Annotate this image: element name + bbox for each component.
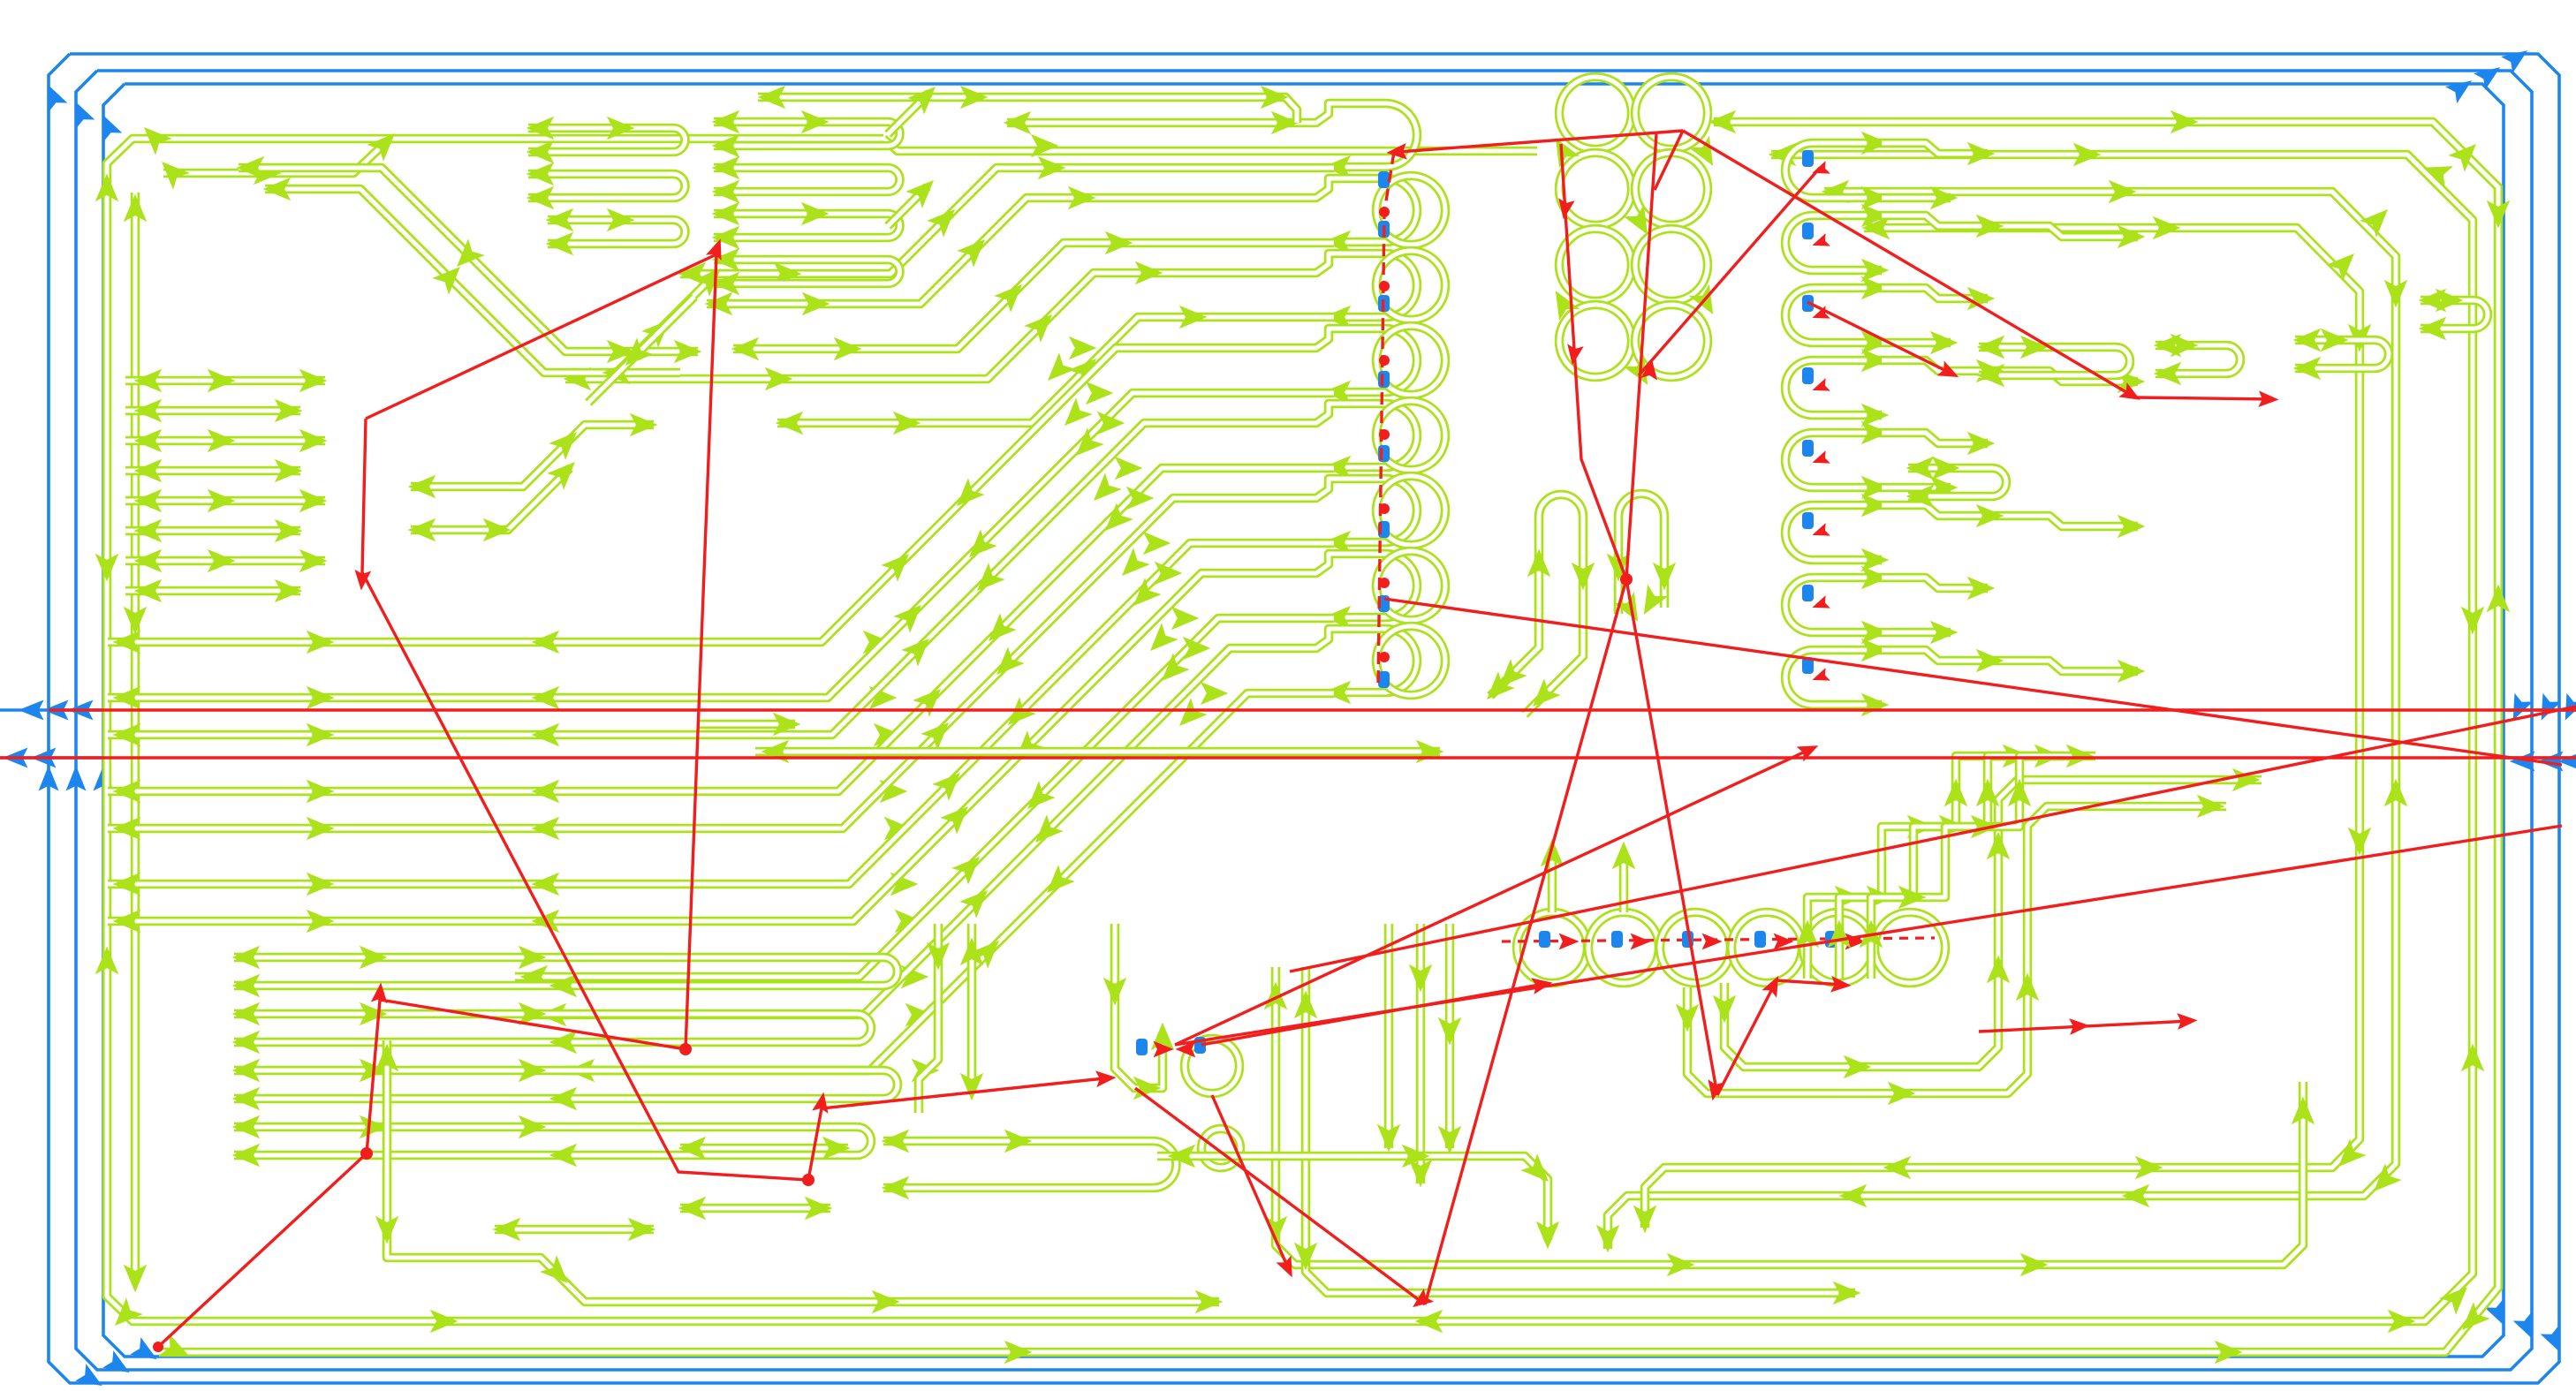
arrow — [959, 882, 996, 919]
arrow — [549, 1144, 578, 1168]
arrow — [360, 1115, 388, 1139]
arrow — [2448, 136, 2484, 172]
blue arrow — [2541, 1326, 2570, 1357]
pad loop L0 — [1336, 103, 1417, 167]
pad loop R4 — [1785, 433, 1882, 488]
wire rfeed 5 — [1882, 505, 2138, 526]
arrow — [2454, 1302, 2490, 1338]
arrow — [905, 1003, 934, 1027]
red arrow — [1797, 738, 1822, 762]
arrow — [628, 1218, 656, 1242]
arrow — [1976, 215, 2004, 238]
arrow — [2118, 660, 2146, 684]
arrow — [532, 723, 560, 747]
arrow — [2439, 1279, 2475, 1315]
red arrow — [1810, 595, 1830, 614]
wire feed pad loop L5 — [1297, 479, 1352, 498]
pad loop L5 — [1336, 479, 1417, 542]
ratsnest j2 — [1979, 1021, 2191, 1032]
arrow — [1409, 964, 1433, 993]
arrow — [2348, 828, 2372, 856]
arrow — [1653, 563, 1677, 591]
arrow — [1861, 349, 1890, 373]
blue arrow — [43, 700, 69, 721]
blue marker — [1378, 221, 1390, 238]
arrow — [254, 162, 282, 185]
wire v1641 — [1445, 924, 1455, 1148]
arrow — [134, 489, 163, 513]
pad ring pad loop L3 — [1376, 326, 1445, 395]
wire feed pad loop L0 — [1297, 103, 1352, 123]
ratsnest bus2 — [0, 756, 2576, 759]
wire fan row y309 — [565, 273, 1297, 379]
arrow — [773, 713, 801, 737]
arrow — [765, 367, 793, 391]
arrow — [232, 946, 261, 970]
net bus N2 tail — [883, 139, 1537, 151]
arrow — [2419, 317, 2447, 341]
arrow — [834, 337, 862, 361]
wire v1572 — [1384, 924, 1394, 1148]
arrow — [1027, 814, 1064, 850]
arrow — [1040, 352, 1076, 389]
net bus N3 — [1608, 192, 2396, 1249]
arrow — [2388, 1310, 2416, 1334]
ratsnest k — [1626, 134, 1656, 579]
arrow — [1930, 476, 1959, 500]
arrow — [360, 1002, 388, 1026]
wire tail U2c — [888, 186, 928, 226]
pad loop R7 — [1785, 650, 1882, 705]
wire feed pad loop L7 — [1297, 629, 1352, 648]
arrow — [1713, 995, 1737, 1024]
arrow — [1294, 1243, 1318, 1271]
wire row A7 — [125, 586, 300, 596]
arrow — [678, 1197, 707, 1221]
arrow — [1143, 532, 1171, 556]
arrow — [532, 686, 560, 710]
wire fork 2 — [411, 468, 570, 530]
wire corner diag 1 — [239, 168, 698, 352]
red arrow — [1810, 450, 1830, 469]
arrow — [2020, 1253, 2049, 1277]
arrow — [1142, 623, 1178, 659]
arrow — [2109, 180, 2137, 204]
ratsnest q — [1384, 599, 2562, 765]
arrow — [134, 429, 163, 453]
arrow — [880, 780, 908, 804]
arrow — [1971, 815, 1999, 839]
pad loop R5 — [1785, 505, 1882, 560]
arrow — [307, 873, 335, 896]
arrow — [232, 1031, 261, 1055]
via ring grid r1c0 — [1559, 153, 1632, 225]
wire loop G2 — [234, 1070, 898, 1099]
arrow — [712, 134, 740, 158]
arrow — [299, 549, 328, 573]
wire rret 2 — [1882, 338, 1951, 348]
via ring grid r1c1 — [1635, 153, 1708, 225]
via ring grid r2c0 — [1559, 229, 1632, 301]
blue marker — [1802, 367, 1814, 384]
arrow — [1415, 1310, 1443, 1334]
arrow — [1545, 284, 1580, 321]
arrow — [1708, 110, 1737, 134]
red arrow — [1810, 306, 1830, 324]
arrow — [1844, 1055, 1872, 1079]
wire rfeed 4 — [1882, 433, 1988, 443]
arrow — [960, 938, 984, 966]
arrow — [408, 518, 436, 542]
pad loop L2 — [1336, 253, 1417, 317]
arrow — [95, 174, 119, 202]
via ring grid r0c0 — [1559, 77, 1632, 149]
arrow — [1907, 815, 1936, 839]
arrow — [208, 369, 236, 393]
red arrow — [1810, 378, 1830, 397]
red arrow — [1631, 934, 1651, 950]
wire loop RM3 — [2295, 340, 2389, 368]
arrow — [1114, 548, 1150, 584]
arrow — [907, 79, 943, 115]
arrow — [1833, 1281, 1861, 1305]
blue marker — [1802, 150, 1814, 167]
arrow — [540, 1255, 576, 1291]
arrow — [546, 208, 574, 232]
arrow — [1976, 649, 2004, 673]
pad ring pad loop L5 — [1376, 476, 1445, 545]
arrow — [2016, 973, 2040, 1002]
arrow — [1987, 832, 2011, 860]
arrow — [1545, 132, 1580, 168]
via ring grid r2c1 — [1635, 229, 1708, 301]
arrow — [927, 201, 963, 238]
arrow — [1888, 1082, 1916, 1106]
blue marker — [1802, 657, 1814, 674]
via ring grid r3c1 — [1635, 305, 1708, 377]
arrow — [546, 232, 574, 256]
wire loop U2d — [714, 260, 900, 283]
arrow — [712, 156, 740, 180]
arrow — [774, 262, 802, 286]
arrow — [2487, 585, 2511, 613]
arrow — [113, 723, 141, 747]
arrow — [208, 549, 236, 573]
ratsnest bus1 — [49, 708, 2576, 711]
arrow — [483, 518, 511, 542]
wire hairpin 2 — [1618, 494, 1664, 614]
red via — [1379, 503, 1390, 514]
wire feed pad loop L3 — [1297, 329, 1352, 348]
wire hairpin 1 — [1490, 495, 1583, 714]
arrow — [520, 965, 549, 989]
red arrow — [371, 982, 390, 1003]
arrow — [1520, 1153, 1557, 1190]
arrow — [2366, 1163, 2402, 1199]
wire loop U2c — [714, 214, 900, 238]
arrow — [1323, 231, 1352, 254]
blue marker — [1611, 931, 1623, 948]
ratsnest l — [1561, 144, 1626, 579]
arrow — [1024, 306, 1060, 343]
arrow — [2232, 768, 2261, 792]
wire rret 4 — [1882, 483, 1951, 493]
arrow — [1861, 494, 1890, 518]
red arrow — [1154, 1041, 1174, 1058]
arrow — [1906, 485, 1935, 509]
blue arrow — [2445, 72, 2478, 103]
wire step stair 1 — [1839, 756, 2064, 979]
blue marker — [1802, 295, 1814, 312]
arrow — [1769, 143, 1797, 167]
frame stub left y858 — [0, 756, 106, 760]
arrow — [678, 262, 707, 286]
wire stub up1 — [1548, 850, 1557, 912]
arrow — [134, 519, 163, 543]
arrow — [1323, 155, 1352, 179]
wire loop RM5 — [1908, 468, 2006, 496]
wire staircase 2 — [108, 423, 1297, 735]
arrow — [2171, 334, 2199, 358]
red via — [153, 1342, 163, 1352]
arrow — [1294, 991, 1318, 1019]
arrow — [1861, 204, 1890, 228]
arrow — [761, 740, 790, 764]
arrow — [1125, 578, 1162, 614]
arrow — [1201, 682, 1229, 706]
arrow — [712, 180, 740, 204]
ratsnest g — [1425, 579, 1626, 1304]
arrow — [801, 110, 830, 134]
arrow — [693, 261, 729, 297]
arrow — [1861, 404, 1890, 427]
red arrow — [1845, 934, 1866, 950]
arrow — [539, 1003, 567, 1027]
arrow — [1323, 381, 1352, 404]
blue arrow — [2504, 693, 2533, 725]
arrow — [2118, 515, 2146, 539]
blue marker — [1194, 1037, 1206, 1054]
arrow — [905, 172, 942, 208]
arrow — [124, 1265, 148, 1293]
blue marker — [1802, 512, 1814, 529]
wire row A4 — [125, 496, 325, 506]
ratsnest t — [1201, 984, 1544, 1045]
wire rret 6 — [1882, 628, 1951, 638]
arrow — [375, 1216, 399, 1244]
arrow — [532, 631, 560, 654]
arrow — [1168, 1145, 1196, 1168]
arrow — [678, 1137, 707, 1160]
arrow — [232, 1115, 261, 1139]
blue marker — [1378, 295, 1390, 312]
pad bottom 4 — [1803, 912, 1874, 983]
arrow — [1438, 1126, 1462, 1154]
pad ring pad loop L7 — [1376, 626, 1445, 695]
pad bottom 1 — [1588, 912, 1659, 983]
blue arrow — [2510, 752, 2535, 772]
arrow — [1861, 331, 1890, 355]
arrow — [1930, 331, 1959, 355]
red arrow — [1175, 1041, 1195, 1058]
arrow — [1689, 284, 1724, 321]
blue arrow — [2538, 752, 2564, 772]
pad cluster ring — [1185, 1039, 1239, 1093]
net bus N2 — [107, 139, 2473, 1321]
ratsnest n2 — [2135, 397, 2272, 399]
arrow — [2384, 280, 2408, 308]
arrow — [549, 1087, 578, 1111]
arrow — [927, 942, 951, 971]
blue marker — [1378, 671, 1390, 688]
wire big L bottom — [387, 1040, 1219, 1302]
blue marker — [1754, 931, 1766, 948]
blue arrow — [38, 80, 67, 112]
arrow — [940, 798, 976, 835]
arrow — [1019, 781, 1056, 817]
wire staircase 4 — [108, 498, 1297, 828]
wire loop H1 — [883, 1141, 1177, 1188]
blue arrow — [2501, 42, 2534, 73]
arrow — [493, 1218, 521, 1242]
wire rret 0 — [1882, 193, 1951, 203]
arrow — [2073, 143, 2102, 167]
arrow — [881, 546, 917, 582]
arrow — [1867, 886, 1895, 910]
arrow — [1008, 730, 1044, 767]
arrow — [758, 86, 786, 110]
arrow — [869, 686, 898, 710]
arrow — [113, 780, 141, 804]
arrow — [1822, 180, 1850, 204]
red arrow — [1531, 974, 1554, 994]
arrow — [641, 312, 678, 348]
wire cluster approach — [1115, 924, 1163, 1088]
arrow — [275, 459, 303, 483]
arrow — [567, 1059, 595, 1083]
red via — [1379, 429, 1390, 440]
arrow — [2197, 795, 2225, 819]
arrow — [969, 563, 1005, 599]
arrow — [822, 1137, 851, 1160]
arrow — [1031, 134, 1059, 158]
red via — [679, 1043, 692, 1055]
arrow — [532, 817, 560, 841]
pad ring pad loop L2 — [1376, 251, 1445, 320]
arrow — [549, 974, 578, 998]
pad bottom 0 — [1517, 912, 1587, 983]
arrow — [1977, 364, 2005, 388]
arrow — [2384, 779, 2408, 807]
arrow — [1179, 306, 1208, 329]
arrow — [113, 817, 141, 841]
wire rfeed 6 — [1882, 578, 1988, 588]
arrow — [154, 154, 190, 190]
wire rfeed 2 — [1882, 288, 1988, 299]
ratsnest s — [1175, 748, 1813, 1045]
red via — [1379, 207, 1390, 217]
arrow — [1883, 1156, 1912, 1180]
wire rfeed 0 — [1882, 143, 1988, 154]
arrow — [1479, 671, 1515, 707]
arrow — [449, 238, 485, 275]
blue arrow — [65, 97, 95, 129]
wire loop U1b — [528, 174, 686, 198]
pad loop L6 — [1336, 554, 1417, 617]
arrow — [1976, 359, 2004, 383]
arrow — [805, 1197, 833, 1221]
arrow — [360, 946, 388, 970]
arrow — [232, 1087, 261, 1111]
arrow — [299, 429, 328, 453]
red via — [1379, 578, 1390, 588]
arrow — [1861, 276, 1890, 300]
arrow — [2487, 200, 2511, 229]
arrow — [307, 780, 335, 804]
arrow — [874, 723, 902, 747]
arrow — [307, 631, 335, 654]
arrow — [532, 910, 560, 934]
arrow — [1416, 740, 1444, 764]
wire staircase 9 — [562, 693, 1334, 1070]
arrow — [1491, 659, 1527, 695]
arrow — [1667, 1253, 1695, 1277]
arrow — [1689, 136, 1724, 172]
arrow — [901, 965, 929, 989]
arrow — [932, 765, 968, 801]
red via — [1379, 281, 1390, 291]
pad bottom 3 — [1731, 912, 1802, 983]
red via — [1379, 652, 1390, 662]
blue arrow — [94, 766, 114, 791]
arrow — [527, 117, 555, 140]
arrow — [1967, 142, 1996, 166]
arrow — [1967, 577, 1996, 601]
red arrow — [1704, 1079, 1724, 1102]
wire left vertical — [131, 193, 140, 1282]
wire step stair 0 — [1807, 756, 2032, 979]
arrow — [1861, 639, 1890, 662]
wire fan row y275 — [733, 243, 1334, 349]
arrow — [712, 272, 740, 296]
blue marker — [1802, 223, 1814, 239]
red arrow — [2069, 1017, 2090, 1035]
arrow — [1402, 1145, 1430, 1168]
arrow — [960, 86, 989, 110]
arrow — [1614, 592, 1648, 628]
arrow — [921, 714, 957, 751]
blue marker — [1378, 521, 1390, 538]
blue arrow — [2532, 693, 2561, 725]
red arrow — [1810, 523, 1830, 541]
blue marker — [1825, 931, 1837, 948]
arrow — [367, 125, 403, 162]
arrow — [1105, 231, 1133, 255]
arrow — [607, 117, 635, 140]
wire feed pad loop L4 — [1297, 404, 1352, 423]
wire feed pad loop L1 — [1297, 178, 1352, 198]
ratsnest i — [1717, 982, 1776, 1095]
wire loop G0 — [234, 957, 898, 986]
arrow — [1377, 1124, 1401, 1153]
ratsnest n3 — [1807, 302, 1953, 374]
red arrow — [1810, 668, 1830, 686]
arrow — [1154, 653, 1190, 689]
arrow — [2008, 779, 2032, 807]
arrow — [2066, 745, 2095, 768]
arrow — [1861, 132, 1890, 155]
arrow — [2419, 156, 2453, 188]
